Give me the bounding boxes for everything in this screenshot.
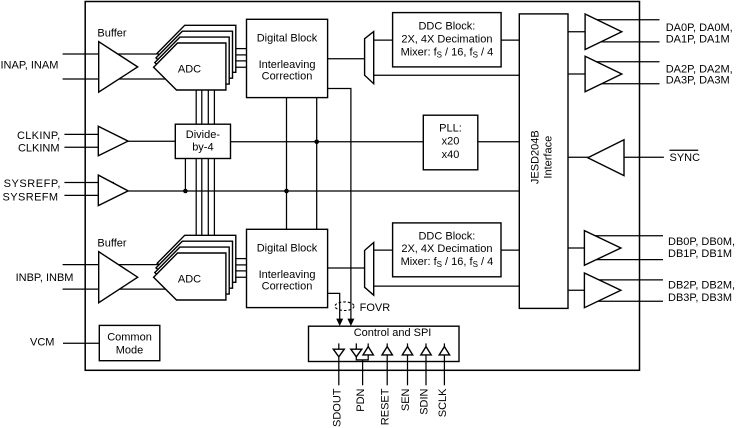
- svg-text:CLKINM: CLKINM: [18, 142, 60, 154]
- svg-text:DB2P, DB2M,: DB2P, DB2M,: [668, 280, 735, 292]
- svg-text:DB0P, DB0M,: DB0P, DB0M,: [668, 236, 735, 248]
- chip outline: [85, 2, 639, 371]
- svg-text:2X, 4X Decimation: 2X, 4X Decimation: [401, 34, 492, 46]
- output driver B01: [584, 231, 621, 266]
- wire PLL to JESD204B: [478, 141, 520, 143]
- SEN pin receiver: [402, 343, 412, 385]
- digital block B: [247, 229, 328, 307]
- label PLL: [439, 122, 462, 161]
- label JESD204B interface: [529, 130, 554, 184]
- wire ADC A data 2: [233, 54, 247, 56]
- svg-text:2X, 4X Decimation: 2X, 4X Decimation: [401, 243, 492, 255]
- wire clock bus 4: [213, 90, 215, 236]
- svg-text:Mixer: fS / 16, fS / 4: Mixer: fS / 16, fS / 4: [401, 256, 494, 269]
- svg-text:DDC Block:: DDC Block:: [418, 231, 475, 243]
- wire JESD to driver B23: [568, 289, 584, 291]
- wire VCM: [63, 342, 99, 344]
- svg-text:INAP, INAM: INAP, INAM: [1, 60, 59, 72]
- wire ADC B data 3: [229, 270, 246, 272]
- FOVR arrow B: [336, 319, 343, 326]
- wire divider to PLL: [231, 141, 424, 143]
- svg-text:SEN: SEN: [400, 388, 412, 411]
- label digital block A: [257, 33, 318, 83]
- svg-text:x40: x40: [442, 149, 460, 161]
- output driver A01: [585, 14, 622, 50]
- wire CLKINP: [64, 133, 114, 135]
- SYNC receiver: [588, 140, 624, 176]
- svg-text:SYSREFP,: SYSREFP,: [4, 178, 61, 190]
- svg-text:Divide-: Divide-: [186, 129, 221, 141]
- wire ADC B data 4: [226, 276, 247, 278]
- wire SYSREFM: [64, 194, 114, 196]
- wire clock bus 3: [207, 90, 209, 236]
- svg-text:SCLK: SCLK: [437, 388, 449, 417]
- label DDC B: [401, 231, 494, 269]
- wire clock bus 2: [201, 90, 203, 236]
- svg-text:Common: Common: [107, 331, 152, 343]
- svg-text:Digital Block: Digital Block: [257, 33, 318, 45]
- svg-text:PDN: PDN: [355, 388, 367, 411]
- svg-text:Control and SPI: Control and SPI: [354, 327, 432, 339]
- buffer A: [99, 42, 138, 92]
- wire fanout B to DDC B: [374, 249, 393, 251]
- svg-text:CLKINP,: CLKINP,: [17, 130, 60, 142]
- wire ADC B data 2: [233, 264, 247, 266]
- wire JESD to driver B01: [568, 247, 584, 249]
- wire DA0 output: [594, 19, 660, 21]
- output driver B23: [584, 273, 621, 308]
- DDC block B: [393, 223, 501, 277]
- wire FOVR B: [328, 293, 340, 319]
- svg-text:SDIN: SDIN: [419, 388, 431, 414]
- svg-text:PLL:: PLL:: [439, 122, 462, 134]
- wire clk buffer to divider: [128, 140, 175, 142]
- wire DDC B to JESD: [501, 249, 520, 251]
- svg-text:Digital Block: Digital Block: [257, 243, 318, 255]
- svg-text:RESET: RESET: [380, 388, 392, 425]
- control and SPI block: [309, 326, 460, 361]
- FOVR dashed ellipse: [335, 302, 354, 311]
- wire CLKINM: [64, 146, 114, 148]
- node clock junction: [314, 140, 319, 145]
- buffer B: [99, 252, 138, 303]
- svg-text:Mode: Mode: [116, 344, 144, 356]
- fanout A: [365, 32, 374, 84]
- divide-by-4 block: [175, 124, 230, 158]
- wire SYNC input: [624, 156, 664, 158]
- SDOUT pin driver: [333, 343, 344, 385]
- wire SYSREFP: [64, 182, 114, 184]
- svg-text:SYNC: SYNC: [670, 152, 701, 164]
- wire ADC A data 1: [236, 48, 247, 50]
- svg-text:DB1P, DB1M: DB1P, DB1M: [668, 248, 732, 260]
- wire digital block A to fanout: [328, 58, 365, 60]
- wire clock bus 1: [195, 90, 197, 236]
- label DDC A: [401, 21, 494, 60]
- FOVR arrow A: [347, 319, 354, 326]
- wire INAM: [63, 78, 166, 80]
- wire INBP: [63, 264, 167, 266]
- svg-text:DA3P, DA3M: DA3P, DA3M: [666, 75, 730, 87]
- SCLK pin receiver: [439, 343, 449, 385]
- wire digital block B to fanout: [328, 267, 365, 269]
- wire DB3 output: [593, 300, 663, 302]
- RESET pin receiver: [382, 343, 392, 385]
- wire INAP: [63, 53, 167, 55]
- clock input buffer: [98, 126, 128, 156]
- svg-text:VCM: VCM: [30, 337, 54, 349]
- svg-text:Correction: Correction: [262, 280, 313, 292]
- SDIN pin receiver: [421, 343, 431, 385]
- wire bypass B to JESD: [374, 285, 520, 287]
- svg-text:Correction: Correction: [262, 70, 313, 82]
- wire bypass A to JESD: [374, 74, 520, 76]
- wire DA1 output: [594, 41, 660, 43]
- node sysref junction: [284, 189, 289, 194]
- wire ADC A data 4: [226, 66, 247, 68]
- svg-text:ADC: ADC: [178, 274, 201, 286]
- svg-text:x20: x20: [442, 136, 460, 148]
- wire DA3 output: [594, 83, 660, 85]
- wire divider sysref tap: [184, 159, 186, 192]
- svg-text:by-4: by-4: [192, 142, 213, 154]
- node divider sysref junction: [183, 189, 188, 194]
- PLL block: [423, 115, 478, 170]
- JESD204B interface block: [519, 14, 568, 309]
- ADC A stack: [154, 25, 236, 90]
- sysref input buffer: [98, 175, 128, 206]
- svg-text:DB3P, DB3M: DB3P, DB3M: [668, 292, 732, 304]
- wire sysref net: [128, 190, 519, 192]
- wire ADC A data 3: [229, 60, 246, 62]
- common mode block: [99, 325, 160, 360]
- digital block A: [247, 19, 328, 97]
- label digital block B: [257, 243, 318, 293]
- wire clock to digital blocks: [316, 98, 318, 230]
- svg-text:Buffer: Buffer: [97, 27, 126, 39]
- svg-text:ADC: ADC: [178, 64, 201, 76]
- wire DB2 output: [593, 279, 663, 281]
- wire DA2 output: [594, 61, 660, 63]
- wire sysref to digital blocks: [286, 98, 288, 230]
- wire JESD to driver A01: [568, 31, 585, 33]
- label common mode: [107, 331, 152, 356]
- wire DDC A to JESD: [501, 39, 519, 41]
- wire JESD to driver A23: [568, 73, 585, 75]
- wire DB0 output: [593, 235, 663, 237]
- label divide-by-4: [186, 129, 221, 154]
- SYNC overline: [670, 149, 699, 151]
- wire DB1 output: [593, 259, 663, 261]
- PDN pin bidirectional: [351, 343, 374, 385]
- output driver A23: [585, 56, 622, 92]
- svg-text:DA1P, DA1M: DA1P, DA1M: [666, 34, 730, 46]
- svg-text:SDOUT: SDOUT: [331, 388, 343, 427]
- wire SYNC to JESD: [568, 156, 590, 158]
- DDC block A: [393, 13, 502, 67]
- ADC B stack: [154, 235, 236, 300]
- svg-text:Interface: Interface: [542, 136, 554, 179]
- svg-text:JESD204B: JESD204B: [529, 130, 541, 184]
- svg-text:SYSREFM: SYSREFM: [3, 192, 59, 204]
- fanout B: [365, 243, 374, 296]
- svg-text:DDC Block:: DDC Block:: [418, 21, 475, 33]
- wire FOVR A: [328, 89, 351, 320]
- svg-text:Interleaving: Interleaving: [259, 59, 316, 71]
- svg-text:DA0P, DA0M,: DA0P, DA0M,: [666, 22, 733, 34]
- wire fanout A to DDC A: [374, 39, 393, 41]
- svg-text:Buffer: Buffer: [97, 237, 126, 249]
- svg-text:Interleaving: Interleaving: [259, 269, 316, 281]
- svg-text:Mixer: fS / 16, fS / 4: Mixer: fS / 16, fS / 4: [401, 46, 494, 59]
- wire INBM: [63, 288, 166, 290]
- svg-text:INBP, INBM: INBP, INBM: [16, 272, 74, 284]
- svg-text:FOVR: FOVR: [360, 302, 391, 314]
- wire ADC B data 1: [236, 258, 247, 260]
